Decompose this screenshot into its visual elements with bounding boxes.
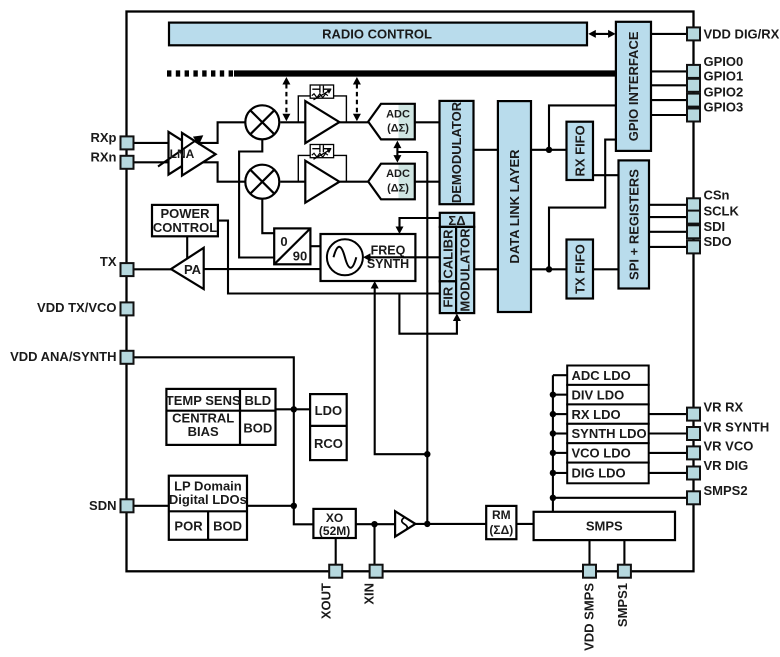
wire RX LDO to VR RX pin — [649, 413, 687, 415]
svg-text:LNA: LNA — [170, 147, 195, 161]
wire central bias to LDO — [276, 408, 311, 410]
svg-text:DATA LINK LAYER: DATA LINK LAYER — [507, 149, 522, 264]
LNA amplifier (dual triangles) — [169, 132, 216, 176]
svg-text:Digital LDOs: Digital LDOs — [169, 492, 247, 507]
pin SDI — [687, 225, 700, 238]
wire GPIO interface to GPIO2 pin — [651, 99, 687, 101]
arrowhead into modulator bottom — [453, 314, 461, 322]
TX FIFO block — [567, 240, 594, 299]
dashed AGC arrow right (bus to PGA output) — [353, 77, 361, 121]
svg-text:VDD ANA/SYNTH: VDD ANA/SYNTH — [10, 349, 116, 364]
wire VDD ANA/SYNTH pin down to XO — [134, 357, 314, 524]
wire modulator to data link layer — [474, 268, 498, 270]
pin XOUT — [329, 565, 342, 578]
svg-text:GPIO INTERFACE: GPIO INTERFACE — [626, 31, 641, 141]
svg-text:RM: RM — [492, 508, 511, 522]
modulator block — [456, 227, 474, 313]
pin VR DIG — [687, 467, 700, 480]
wire SYNTH LDO to VR SYNTH pin — [649, 432, 687, 434]
svg-text:FIR: FIR — [441, 286, 456, 308]
svg-text:FREQ: FREQ — [371, 243, 406, 257]
wire LDO bus to SYNTH LDO — [553, 432, 567, 434]
dashed AGC arrow left (bus to mixer output) — [282, 77, 290, 121]
wire mixer2 LO from 0/90 — [262, 199, 274, 234]
svg-text:TX FIFO: TX FIFO — [572, 244, 587, 294]
svg-text:90: 90 — [293, 248, 307, 263]
pin GPIO1 — [687, 79, 700, 92]
RX LDO box — [567, 404, 649, 423]
svg-text:VR SYNTH: VR SYNTH — [704, 419, 770, 434]
svg-text:RADIO CONTROL: RADIO CONTROL — [322, 27, 432, 42]
pin VDD SMPS — [583, 565, 596, 578]
svg-text:VDD DIG/RX: VDD DIG/RX — [704, 26, 780, 41]
svg-text:GPIO1: GPIO1 — [704, 69, 744, 84]
wire TX FIFO to SPI registers — [593, 268, 619, 270]
SPI + registers block — [619, 160, 650, 288]
XO crystal oscillator box — [313, 509, 355, 538]
svg-text:POWER: POWER — [160, 206, 210, 221]
wire RX junction to GPIO interface — [549, 105, 616, 149]
wire LDO bus top to ADC LDO — [553, 374, 567, 376]
wire GPIO interface to GPIO3 pin — [651, 114, 687, 116]
svg-text:SCLK: SCLK — [704, 204, 740, 219]
pin GPIO3 — [687, 109, 700, 122]
pin VDD TX/VCO — [121, 302, 134, 315]
arrow calibr to freq synth — [363, 253, 440, 261]
wire LP domain to vertical — [247, 505, 294, 507]
SYNTH LDO box — [567, 424, 649, 443]
wire XO to XOUT pin — [335, 538, 337, 565]
pin VR RX — [687, 408, 700, 421]
DIG LDO box — [567, 463, 649, 484]
double arrow radio control to GPIO interface — [588, 30, 615, 38]
svg-text:RXn: RXn — [91, 149, 117, 164]
pin CSn — [687, 198, 700, 211]
CALIBR block — [440, 227, 456, 281]
pin VR SYNTH — [687, 427, 700, 440]
wire RXp to LNA to mixer1 — [134, 122, 247, 143]
ADC LDO box — [567, 366, 649, 385]
svg-text:SDN: SDN — [89, 498, 116, 513]
XO buffer amplifier — [395, 511, 415, 536]
wire LDO bus to DIV LDO — [553, 394, 567, 396]
wire RM to SMPS — [516, 523, 533, 525]
wire clock branch to freq synth bottom — [375, 285, 428, 454]
FIR block — [440, 281, 456, 313]
PGA2 feedback loop — [298, 155, 346, 181]
PGA2 RC network box — [310, 145, 333, 160]
arrowhead into freq synth top — [396, 227, 404, 235]
wire clock vertical — [426, 152, 428, 524]
temp sens / central bias block — [166, 389, 276, 445]
wire SMPS2 pin — [553, 497, 687, 499]
PA amplifier — [171, 248, 204, 289]
wire demodulator to data link layer — [474, 149, 499, 151]
SMPS box — [534, 512, 675, 540]
pin GPIO2 — [687, 94, 700, 107]
svg-text:DEMODULATOR: DEMODULATOR — [449, 101, 464, 203]
svg-text:ADC: ADC — [386, 168, 410, 180]
svg-text:CSn: CSn — [704, 187, 730, 202]
wire LDO bus to VCO LDO — [553, 452, 567, 454]
VCO LDO box — [567, 443, 649, 462]
svg-text:VR VCO: VR VCO — [704, 439, 754, 454]
wire GPIO interface to GPIO1 pin — [651, 84, 687, 86]
DIV LDO box — [567, 385, 649, 405]
svg-text:BLD: BLD — [244, 393, 271, 408]
svg-text:MODULATOR: MODULATOR — [458, 228, 473, 312]
svg-text:XIN: XIN — [362, 583, 377, 605]
wire mixer1 to PGA1 to ADC1 — [280, 121, 368, 123]
wire freq synth to PA — [204, 268, 321, 270]
wire LDO bus to RX LDO — [553, 413, 567, 415]
wire data link layer to RX FIFO — [531, 149, 567, 151]
sigma-delta box — [440, 213, 474, 228]
svg-text:VR DIG: VR DIG — [704, 458, 749, 473]
PGA1 RC network box — [310, 85, 333, 100]
wire DIG LDO to VR DIG pin — [649, 472, 687, 474]
LP domain digital LDOs block — [169, 476, 247, 540]
wire ADC2 to demodulator — [415, 181, 440, 183]
pin SDO — [687, 240, 700, 253]
svg-text:GPIO0: GPIO0 — [704, 54, 744, 69]
wire data link layer to TX FIFO — [531, 268, 567, 270]
svg-text:SMPS: SMPS — [586, 519, 623, 534]
pin SDN — [121, 499, 134, 512]
data link layer block — [498, 101, 531, 312]
svg-text:XO: XO — [326, 511, 343, 525]
radio control bar — [169, 23, 587, 46]
svg-text:BIAS: BIAS — [188, 424, 219, 439]
svg-text:DIV LDO: DIV LDO — [572, 387, 625, 402]
0/90 phase splitter — [274, 228, 310, 264]
wire SPI to SDI pin — [649, 231, 687, 233]
svg-text:0: 0 — [280, 234, 287, 249]
freq synth box — [321, 234, 416, 281]
wire RXn to LNA to mixer2 — [134, 162, 246, 181]
svg-text:PA: PA — [184, 262, 202, 277]
wire TX pin to PA — [134, 268, 172, 270]
wire GPIO interface to GPIO0 pin — [651, 70, 687, 72]
svg-text:VR RX: VR RX — [704, 400, 744, 415]
svg-text:(ΔΣ): (ΔΣ) — [387, 182, 409, 194]
wire power control to PA — [186, 236, 188, 260]
svg-text:BOD: BOD — [243, 421, 272, 436]
svg-text:RX FIFO: RX FIFO — [572, 125, 587, 176]
pin GPIO0 — [687, 65, 700, 78]
svg-text:SMPS1: SMPS1 — [615, 583, 630, 627]
PGA1 feedback loop — [298, 96, 346, 122]
pin SMPS1 — [618, 565, 631, 578]
wire SDN pin to LP domain — [134, 505, 169, 507]
wire SPI to CSn pin — [649, 204, 687, 206]
wire buffer to RM — [415, 523, 486, 525]
wire SMPS to SMPS1 pin — [623, 540, 625, 565]
pin VDD ANA/SYNTH — [121, 351, 134, 364]
svg-text:SYNTH: SYNTH — [367, 257, 409, 271]
svg-text:VDD TX/VCO: VDD TX/VCO — [37, 300, 116, 315]
wire XO junction to XIN pin — [373, 524, 375, 565]
LDO / RCO box — [310, 394, 347, 460]
svg-text:ADC LDO: ADC LDO — [572, 368, 631, 383]
double arrow between ADCs — [393, 141, 401, 163]
GPIO interface block — [616, 22, 651, 151]
wire branch to modulator bottom — [399, 294, 457, 334]
wire VCO LDO to VR VCO pin — [649, 452, 687, 454]
control bus dashed segment — [167, 70, 234, 76]
power control box — [152, 205, 218, 236]
RX FIFO block — [567, 122, 594, 180]
ADC 2 (delta-sigma) — [368, 164, 415, 200]
wire ADC link to clock — [397, 151, 427, 153]
wire SPI to SCLK pin — [649, 216, 687, 218]
pin SMPS2 — [687, 491, 700, 504]
wire TX junction to GPIO interface — [549, 140, 616, 270]
svg-text:RX LDO: RX LDO — [572, 407, 621, 422]
svg-text:POR: POR — [174, 518, 203, 533]
svg-text:(ΔΣ): (ΔΣ) — [387, 123, 409, 135]
wire 0/90 to freq synth — [310, 245, 320, 247]
wire SPI to SDO pin — [649, 246, 687, 248]
PGA2 amplifier — [305, 161, 339, 203]
svg-text:(ΣΔ): (ΣΔ) — [489, 523, 513, 537]
svg-text:SYNTH LDO: SYNTH LDO — [572, 426, 647, 441]
wire mixer2 to PGA2 to ADC2 — [280, 181, 368, 183]
demodulator block — [440, 101, 474, 204]
wire sigma-delta to freq synth top — [400, 218, 440, 230]
svg-text:ΣΔ: ΣΔ — [448, 213, 465, 228]
PINS — [121, 27, 701, 577]
svg-text:VDD SMPS: VDD SMPS — [582, 583, 597, 651]
svg-text:RXp: RXp — [91, 130, 117, 145]
PGA1 amplifier — [305, 101, 339, 143]
pin VDD DIG/RX — [687, 27, 700, 40]
wire GPIO interface to VDD DIG/RX pin — [651, 33, 687, 35]
svg-text:TX: TX — [100, 254, 117, 269]
pin XIN — [370, 565, 383, 578]
svg-text:SPI + REGISTERS: SPI + REGISTERS — [626, 169, 641, 280]
svg-text:XOUT: XOUT — [319, 583, 334, 619]
wire power control to FIR — [218, 221, 440, 294]
svg-text:RCO: RCO — [314, 436, 343, 451]
svg-text:CALIBR: CALIBR — [441, 229, 456, 279]
svg-text:GPIO2: GPIO2 — [704, 85, 744, 100]
svg-text:ADC: ADC — [386, 108, 410, 120]
wire ADC1 to demodulator — [415, 121, 440, 123]
arrowhead into freq synth bottom — [371, 281, 379, 289]
junction dots — [291, 147, 557, 528]
svg-text:(52M): (52M) — [319, 524, 350, 538]
svg-text:GPIO3: GPIO3 — [704, 100, 744, 115]
svg-text:SMPS2: SMPS2 — [704, 483, 748, 498]
pin TX — [121, 263, 134, 276]
mixer 2 (Q) — [245, 165, 279, 199]
svg-text:VCO LDO: VCO LDO — [572, 446, 631, 461]
svg-text:SDI: SDI — [704, 219, 726, 234]
LNA gain arrow — [158, 139, 198, 166]
svg-text:TEMP SENS: TEMP SENS — [166, 393, 241, 408]
wire SMPS to VDD SMPS pin — [588, 540, 590, 565]
pin RXp — [121, 136, 134, 149]
svg-text:CONTROL: CONTROL — [153, 220, 217, 235]
control bus solid segment — [234, 70, 616, 76]
svg-text:BOD: BOD — [213, 518, 242, 533]
pin VR VCO — [687, 446, 700, 459]
svg-text:SDO: SDO — [704, 234, 732, 249]
svg-text:DIG LDO: DIG LDO — [572, 466, 626, 481]
chip outline — [127, 12, 694, 572]
RM (sigma-delta) box — [486, 506, 516, 539]
wire RX FIFO to SPI registers — [593, 174, 619, 176]
wire LDO bus to DIG LDO — [553, 472, 567, 474]
pin RXn — [121, 156, 134, 169]
wire SMPS to LDO bus — [552, 375, 554, 512]
mixer 1 (I) — [245, 105, 279, 139]
wire XO to buffer — [356, 523, 395, 525]
pin SCLK — [687, 211, 700, 224]
svg-text:LDO: LDO — [315, 403, 342, 418]
wire mixer1 LO from 0/90 — [239, 139, 274, 257]
ADC 1 (delta-sigma) — [368, 104, 415, 140]
